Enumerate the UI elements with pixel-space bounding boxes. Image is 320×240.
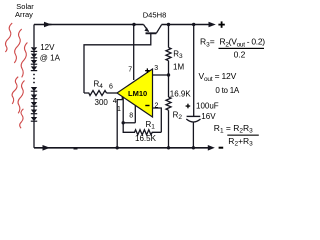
capacitor plus mark [186,105,191,106]
sun ray wave 4 [12,77,18,104]
wire: R2 to ground rail [168,110,170,148]
transistor Q1 collector [156,25,161,34]
node: pin 4 ground junction [116,146,119,149]
wire: divider mid [168,61,170,97]
resistor R3 zigzag [166,48,171,61]
wire: pin 7 supply line [133,25,135,81]
diode D5 [31,87,37,91]
wire: pin 3 [153,74,169,76]
svg-text:100uF: 100uF [196,102,219,111]
svg-text:D45H8: D45H8 [143,11,167,20]
op-amp U1 LM10 body [117,69,153,117]
diode D3 [31,60,37,64]
svg-text:LM10: LM10 [128,89,147,98]
svg-text:16.5K: 16.5K [135,134,157,143]
wire: solar array vertical bottom to ground rail [33,121,35,148]
diode D4 [31,66,37,70]
svg-text:16V: 16V [201,112,216,121]
wire: solar array vertical top [33,25,35,48]
wire: pin 4 to ground [117,96,122,147]
wire [33,64,35,66]
svg-text:6: 6 [109,84,113,91]
wire: top rail arrow [44,24,52,26]
node: pin3 tap [167,73,170,76]
node: capacitor junction on top rail [192,23,195,26]
transistor Q1 base bar [146,32,157,34]
wire: chain interconnects [33,91,35,117]
wire: output pin 6 [107,92,118,94]
svg-text:8: 8 [129,112,133,119]
sun ray wave 6 [20,109,24,128]
svg-text:2: 2 [155,102,159,109]
wire: top rail right section [162,24,210,26]
node: capacitor ground junction [192,146,195,149]
formula R3 [199,37,266,148]
diode D1 [31,47,37,51]
op-amp input polarity [145,70,149,71]
resistor R4 [84,91,107,96]
diode D7 [31,102,37,106]
resistor R1 [123,123,161,135]
wire: pin 1 stub [122,97,124,123]
resistor R3 branch wire [168,25,170,48]
sun ray wave 3 [21,43,27,78]
dotted continuation [33,74,35,76]
capacitor C1 curved plate [186,119,200,122]
svg-text:1: 1 [117,106,121,113]
sun ray wave 1 [5,23,12,52]
svg-text:0.2: 0.2 [234,50,246,60]
transistor Q1 D45H8 emitter [144,25,149,32]
svg-text:Array: Array [15,10,33,19]
capacitor C1 top plate [187,115,201,117]
diode D9 [31,117,37,121]
small blemish on rail [74,148,78,150]
wire: capacitor branch [193,25,195,117]
wire: top rail left section [34,24,144,26]
wire: bottom rail [34,147,209,149]
node: divider junction on top rail [167,23,170,26]
diode D8 [31,110,37,114]
svg-text:R1 = R2R3: R1 = R2R3 [214,123,253,135]
svg-text:7: 7 [128,66,132,73]
pin numbers [109,65,159,120]
diode D6 [31,95,37,99]
svg-text:3: 3 [154,65,158,72]
wire: pin 2 to R1 [153,108,162,132]
wire: pins 1-8 tie [123,122,135,124]
wire: base down and to R4 loop [84,33,151,93]
sun ray wave 2 [14,29,21,63]
node: R2 ground junction [167,146,170,149]
svg-text:0 to 1A: 0 to 1A [215,86,240,95]
wire: capacitor to ground rail [192,122,194,148]
node: feedback junction [122,121,125,124]
resistor R2 zigzag [166,97,171,110]
svg-text:@ 1A: @ 1A [40,54,61,63]
svg-text:1M: 1M [173,63,184,72]
sun ray wave 5 [18,81,24,114]
plus terminal [218,24,224,26]
wire: pin 8 stub [134,105,136,123]
node: V+ junction on top rail [132,23,135,26]
wire [33,51,35,60]
diode D2 [31,54,37,58]
svg-text:12V: 12V [40,43,55,52]
svg-text:300: 300 [95,98,109,107]
svg-text:4: 4 [113,98,117,105]
svg-text:16.9K: 16.9K [170,89,192,98]
minus terminal [219,147,224,149]
